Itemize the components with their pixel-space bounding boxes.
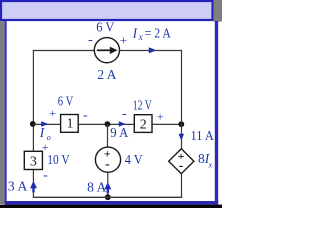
wire: right vertical segment (top corner to node C) (181, 50, 183, 124)
svg-text:2: 2 (140, 117, 147, 132)
wire: left vertical segment (top corner to node A) (32, 50, 34, 124)
svg-text:12 V: 12 V (133, 97, 152, 112)
wire: right vertical segment (node C to dependent source) (181, 124, 183, 149)
node A junction dot (30, 121, 36, 127)
dependent source D1 8Ix (diamond) (169, 149, 194, 174)
wire: top-left horizontal segment (33, 50, 95, 52)
current arrow 11A (179, 134, 185, 141)
svg-text:-: - (122, 107, 127, 122)
svg-text:-: - (105, 156, 110, 171)
svg-text:-: - (43, 168, 48, 183)
element 2 box (134, 115, 152, 133)
wire: middle segment node A to element 1 (33, 123, 60, 125)
voltage source V1 4V (circle with plus minus) (95, 146, 120, 172)
current arrow 3A (30, 181, 37, 188)
svg-text:+: + (120, 33, 127, 48)
wire: left vertical segment (element 3 to bottom corner) (32, 170, 34, 198)
wire: right vertical segment (dependent source to bottom corner) (181, 174, 183, 198)
svg-text:8 A: 8 A (87, 181, 107, 196)
element 1 box (61, 115, 79, 133)
svg-text:1: 1 (67, 117, 74, 132)
svg-text:x: x (138, 32, 143, 42)
svg-text:4 V: 4 V (125, 153, 143, 168)
svg-text:-: - (88, 33, 93, 48)
svg-text:= 2 A: = 2 A (145, 25, 171, 40)
current arrow Ix on top wire (149, 47, 157, 53)
svg-text:11 A: 11 A (191, 129, 215, 144)
toolbar band (0, 0, 222, 208)
current source U1 2A (circle with arrow) (94, 38, 119, 63)
svg-text:-: - (83, 108, 88, 123)
wire: middle branch node B to voltage source (107, 124, 109, 147)
wire: middle segment element 1 to node B (79, 123, 135, 125)
node C junction dot (178, 121, 184, 127)
svg-text:9 A: 9 A (110, 126, 129, 141)
svg-text:3: 3 (30, 155, 37, 170)
wire: middle segment element 2 to node C (152, 123, 181, 125)
wire: left vertical segment (node A to element 3) (32, 124, 34, 151)
current arrow Io (41, 121, 48, 126)
svg-text:2 A: 2 A (97, 68, 117, 83)
wire: middle branch voltage source to node D (107, 173, 109, 198)
svg-text:6 V: 6 V (58, 94, 74, 109)
node B junction dot (105, 121, 111, 127)
svg-text:+: + (157, 109, 164, 123)
svg-text:6 V: 6 V (96, 20, 114, 35)
current arrow 8A (104, 182, 111, 189)
element 3 box (24, 151, 42, 169)
node D junction dot (105, 194, 111, 200)
svg-text:10 V: 10 V (47, 153, 69, 168)
wire: bottom horizontal segment (33, 196, 182, 198)
svg-text:3 A: 3 A (8, 180, 29, 195)
wire: top-right horizontal segment (120, 50, 182, 52)
svg-text:x: x (208, 159, 213, 169)
svg-text:+: + (49, 106, 56, 120)
current arrow 9A (119, 121, 126, 126)
svg-text:-: - (179, 158, 184, 173)
